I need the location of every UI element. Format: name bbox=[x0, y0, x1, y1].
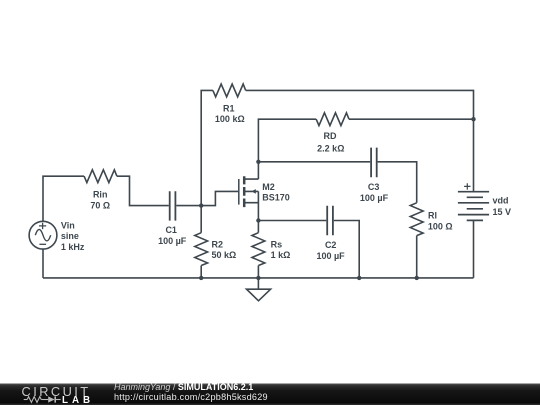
capacitor C3 100µF bbox=[360, 148, 389, 204]
wire Rs bottom bbox=[257, 266, 259, 278]
resistor RD 2.2kΩ bbox=[316, 113, 349, 154]
wire RD right to rail bbox=[349, 118, 474, 120]
ground bbox=[247, 278, 271, 301]
wire Rin to C1 bbox=[117, 176, 169, 205]
wire Vin top to Rin bbox=[43, 176, 84, 221]
resistor R2 50kΩ bbox=[195, 233, 236, 266]
wire Vin bottom bbox=[42, 249, 44, 278]
node C2 bottom junction bbox=[357, 276, 361, 280]
logo doodle (resistor+diode) bbox=[24, 396, 61, 402]
node Rs bottom junction bbox=[256, 276, 260, 280]
resistor Rin 70Ω bbox=[84, 170, 117, 211]
wire bottom rail bbox=[43, 277, 474, 279]
wire source node to C2 bbox=[258, 220, 326, 222]
node source junction bbox=[256, 218, 260, 222]
resistor R1 100kΩ bbox=[213, 84, 246, 124]
capacitor C2 100µF bbox=[316, 206, 345, 261]
wire drain node to C3 bbox=[258, 161, 370, 163]
node RD right junction bbox=[471, 117, 475, 121]
resistor Rs 1kΩ bbox=[252, 233, 290, 266]
resistor Rl 100Ω bbox=[410, 203, 452, 236]
wire R1 to right rail (top rail) bbox=[246, 90, 474, 191]
node gate junction bbox=[199, 203, 203, 207]
wire R2 bottom bbox=[200, 266, 202, 278]
wire gate node to gate of M2 bbox=[201, 191, 238, 205]
wire C2 right to bottom rail bbox=[334, 221, 359, 278]
node Rl bottom junction bbox=[415, 276, 419, 280]
svg-text:LAB: LAB bbox=[62, 395, 94, 405]
wire C3 to Rl bbox=[378, 162, 417, 203]
wire battery bottom to rail bbox=[473, 220, 475, 278]
wire RD left vertical to drain bbox=[258, 119, 316, 179]
wire Rl bottom to rail bbox=[416, 236, 418, 278]
node drain/C3 junction bbox=[256, 160, 260, 164]
battery vdd 15V bbox=[458, 183, 511, 220]
wire M2 source/body vertical bbox=[257, 191, 259, 220]
capacitor C1 100µF bbox=[158, 191, 187, 246]
svg-text:http://circuitlab.com/c2pb8h5k: http://circuitlab.com/c2pb8h5ksd629 bbox=[114, 392, 268, 402]
voltage source Vin (sine 1 kHz) bbox=[29, 220, 85, 252]
wire R1 left vertical bbox=[201, 90, 213, 205]
wire C1 to gate node bbox=[176, 205, 201, 207]
transistor M2 BS170 (NMOS) bbox=[239, 176, 290, 207]
wire Rs top bbox=[257, 221, 259, 233]
svg-text:HanmingYang / SIMULATION6.2.1: HanmingYang / SIMULATION6.2.1 bbox=[114, 382, 253, 392]
wire R2 top bbox=[200, 206, 202, 233]
node R2 bottom junction bbox=[199, 276, 203, 280]
